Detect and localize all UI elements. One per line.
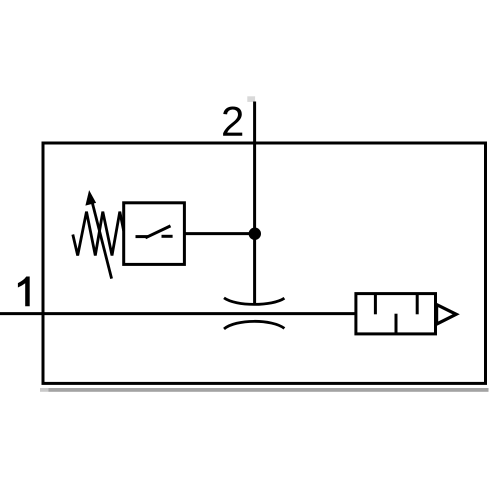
shadow under enclosure	[40, 388, 489, 392]
silencer baffle 2	[395, 314, 398, 334]
port 2 label	[223, 106, 242, 135]
connection marker at port 2	[247, 96, 255, 102]
wire port 2 vertical	[253, 102, 256, 304]
adjustable spring	[73, 212, 124, 256]
switch contact symbol	[136, 226, 173, 238]
silencer box	[356, 294, 436, 334]
pressure switch box U1	[124, 203, 185, 265]
wire port 1 horizontal	[0, 312, 356, 315]
node junction dot	[249, 228, 261, 240]
wire switch box to node	[184, 232, 254, 235]
silencer baffle 1	[374, 294, 377, 315]
output arrow triangle	[437, 305, 457, 325]
silencer baffle 3	[416, 294, 419, 315]
port 1 label	[18, 277, 30, 307]
venturi nozzle lower arc	[224, 321, 284, 329]
venturi nozzle upper arc	[224, 298, 284, 304]
adjustment arrow	[85, 190, 111, 279]
enclosure rectangle	[43, 143, 486, 383]
